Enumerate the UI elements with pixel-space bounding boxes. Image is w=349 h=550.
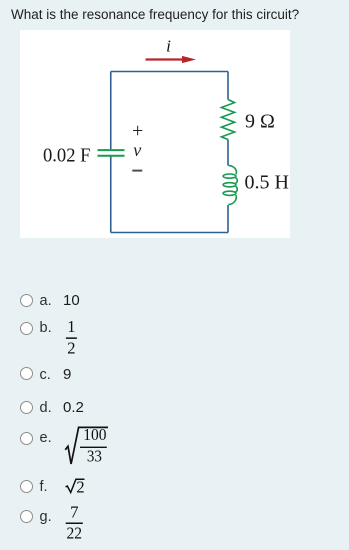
option f (20, 480, 33, 493)
capacitor polarity − (132, 170, 142, 172)
svg-text:1: 1 (67, 317, 75, 336)
svg-text:9 Ω: 9 Ω (245, 111, 275, 133)
option c (20, 367, 33, 380)
svg-text:v: v (133, 140, 141, 160)
svg-text:33: 33 (87, 447, 102, 466)
wire: top segment of loop (111, 71, 228, 73)
svg-text:+: + (132, 120, 143, 142)
svg-text:0.5 H: 0.5 H (245, 172, 289, 194)
svg-text:2: 2 (67, 338, 75, 357)
option e (20, 432, 33, 445)
svg-text:0.02 F: 0.02 F (43, 145, 91, 167)
wire: bottom segment of loop (111, 232, 228, 234)
option a (20, 294, 33, 307)
inductor L coil (223, 165, 237, 204)
svg-text:22: 22 (67, 524, 83, 542)
current arrow i (146, 58, 184, 60)
svg-text:i: i (166, 37, 171, 56)
question text (11, 7, 299, 22)
wire: right segment (split by R and L) (227, 72, 229, 233)
svg-text:7: 7 (70, 503, 78, 522)
option d (20, 401, 33, 414)
svg-text:2: 2 (76, 478, 84, 497)
wire: left segment (split by capacitor C) (110, 72, 112, 233)
option g (20, 510, 33, 523)
capacitor 0.02 F plates (98, 150, 125, 156)
circuit panel (20, 30, 290, 238)
resistor R zigzag (221, 100, 234, 140)
option b (20, 322, 33, 335)
svg-text:100: 100 (83, 425, 106, 444)
